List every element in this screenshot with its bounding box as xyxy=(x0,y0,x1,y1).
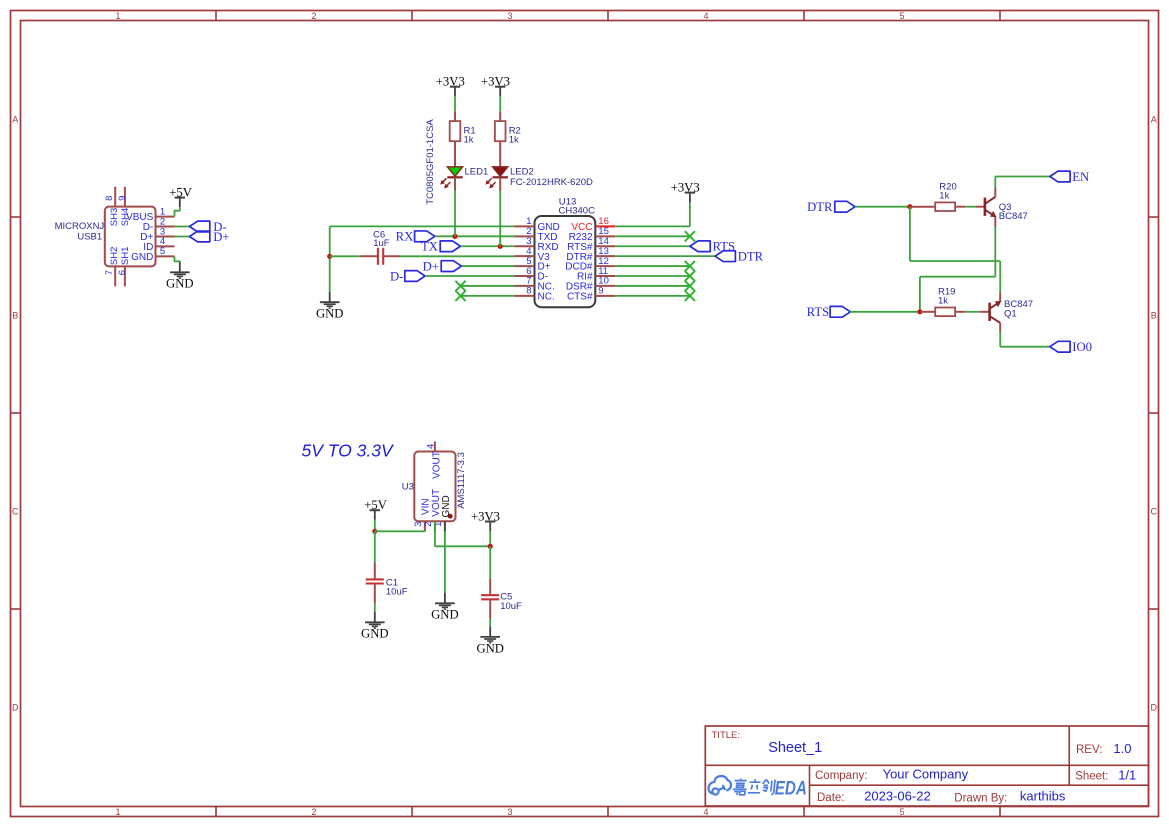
R19 value labels xyxy=(938,287,955,307)
resistor R2 xyxy=(495,111,506,167)
svg-text:9: 9 xyxy=(598,286,603,297)
power +3V3 (above R1) xyxy=(436,75,465,97)
net flag DTR (right of U13) xyxy=(715,250,764,264)
wire C5 to ground xyxy=(489,619,491,627)
svg-text:GND: GND xyxy=(166,277,194,291)
regulator U3 AMS1117-3.3 body xyxy=(414,442,455,532)
svg-text:1k: 1k xyxy=(938,295,948,306)
svg-text:EDA: EDA xyxy=(775,777,807,799)
IC U13 CH340C body xyxy=(515,216,616,307)
ground (left of U13) xyxy=(316,292,344,321)
net flag D- (USB) xyxy=(190,220,227,234)
net flag D+ (U13) xyxy=(423,259,462,273)
wire LED2 to RXD junction xyxy=(499,191,501,246)
capacitor C1 xyxy=(366,562,384,603)
svg-text:9: 9 xyxy=(117,196,128,201)
svg-text:GND: GND xyxy=(431,608,459,622)
C5 value labels xyxy=(500,592,522,612)
Q3 labels xyxy=(999,202,1028,222)
usb connector USB1 (MICROXNJ) xyxy=(105,187,175,287)
wire pin8 NC with no-connect X xyxy=(455,291,514,301)
C1 value labels xyxy=(386,578,408,598)
net flag D- (U13) xyxy=(390,269,425,283)
svg-text:MICROXNJ: MICROXNJ xyxy=(55,221,105,232)
net flag DTR (left input) xyxy=(807,200,855,214)
svg-text:D: D xyxy=(12,702,19,712)
wire +5V down to junction xyxy=(374,519,376,531)
svg-text:3: 3 xyxy=(507,11,512,21)
svg-text:Date:: Date: xyxy=(817,792,845,804)
USB1 pin numbers xyxy=(104,196,165,276)
svg-text:GND: GND xyxy=(361,627,389,641)
wire DTR junction down to Q1 emitter xyxy=(910,207,1000,261)
power +5V (USB) xyxy=(169,185,192,207)
power +3V3 (regulator output) xyxy=(471,509,500,531)
svg-text:DTR: DTR xyxy=(738,250,764,264)
svg-text:SH2: SH2 xyxy=(109,247,120,265)
svg-text:U3: U3 xyxy=(402,481,414,492)
wire C1 to ground xyxy=(374,604,376,612)
svg-text:1k: 1k xyxy=(939,190,949,201)
wire V3 pin4 to C6 xyxy=(330,255,515,257)
net flag EN xyxy=(1050,170,1089,184)
svg-text:A: A xyxy=(12,114,18,124)
svg-text:5: 5 xyxy=(160,246,165,257)
power +3V3 (above R2) xyxy=(481,75,510,97)
svg-text:Your Company: Your Company xyxy=(883,767,969,782)
svg-text:5V TO 3.3V: 5V TO 3.3V xyxy=(302,441,395,461)
LED1 part number (vertical) xyxy=(425,119,436,205)
wire R20 to Q3 base xyxy=(965,206,975,208)
svg-text:DTR: DTR xyxy=(807,200,833,214)
svg-text:2: 2 xyxy=(311,11,316,21)
U3 part number AMS1117-3.3 (vertical) xyxy=(456,452,467,509)
svg-text:5: 5 xyxy=(899,807,904,817)
net flag TX xyxy=(421,240,461,254)
wire junction down to C5 xyxy=(489,546,491,578)
wire LED1 to TXD junction xyxy=(454,191,456,236)
LED2 labels xyxy=(510,167,593,188)
wire D- to pin6 xyxy=(425,275,514,277)
svg-text:IO0: IO0 xyxy=(1072,340,1092,354)
wire DSR# pin10 with no-connect X xyxy=(615,281,695,291)
junction +3V3 node xyxy=(488,544,493,549)
resistor R20 xyxy=(911,202,966,211)
svg-text:karthibs: karthibs xyxy=(1020,789,1066,804)
U13 reference labels U13 / CH340C xyxy=(559,197,596,217)
R2 value labels xyxy=(509,126,521,146)
svg-text:D+: D+ xyxy=(213,230,229,244)
ground (USB) xyxy=(166,262,194,291)
wire R232 pin15 with no-connect X xyxy=(615,231,695,241)
LED LED1 (green) xyxy=(441,167,463,191)
wire Q1 emitter up to DTR line xyxy=(999,261,1001,292)
svg-text:2: 2 xyxy=(311,807,316,817)
USB1 pin names xyxy=(109,208,154,265)
power +3V3 (VCC) xyxy=(671,180,700,202)
C6 value labels xyxy=(373,229,390,249)
junction LED1/TXD xyxy=(452,234,457,239)
junction RTS node xyxy=(917,309,922,314)
svg-text:GND: GND xyxy=(476,642,504,656)
svg-text:RTS: RTS xyxy=(807,305,830,319)
svg-text:Sheet_1: Sheet_1 xyxy=(768,740,822,756)
Q1 labels xyxy=(1004,299,1033,319)
svg-text:VOUT: VOUT xyxy=(432,451,443,479)
junction +5V node xyxy=(372,529,377,534)
svg-text:D: D xyxy=(1151,702,1158,712)
wire pin7 NC with no-connect X xyxy=(455,281,514,291)
svg-text:4: 4 xyxy=(426,444,437,449)
wire RI# pin11 with no-connect X xyxy=(615,271,695,281)
svg-text:2023-06-22: 2023-06-22 xyxy=(864,789,931,804)
svg-text:EN: EN xyxy=(1072,170,1089,184)
ground (U3 pin1) xyxy=(431,593,459,622)
svg-text:10uF: 10uF xyxy=(500,601,522,612)
svg-text:4: 4 xyxy=(703,807,708,817)
svg-text:8: 8 xyxy=(104,196,115,201)
svg-text:GND: GND xyxy=(316,306,344,320)
R20 value labels xyxy=(939,182,956,202)
resistor R1 xyxy=(450,111,461,167)
junction on GND/V3 crossing xyxy=(327,254,332,259)
svg-text:USB1: USB1 xyxy=(77,232,102,243)
wire DTR to junction xyxy=(855,206,910,208)
wire Q1 collector to IO0 xyxy=(1000,332,1050,347)
wire junction to VIN pin3 xyxy=(375,530,425,532)
svg-text:8: 8 xyxy=(526,286,531,297)
wire +3V3 to R2 xyxy=(499,96,501,111)
svg-text:SH1: SH1 xyxy=(120,247,131,265)
wire RTS# pin14 to RTS flag xyxy=(615,245,690,247)
wire pin3 to D+ flag xyxy=(175,236,190,238)
wire GND pin1 down to ground xyxy=(444,531,446,593)
ground (C5) xyxy=(476,627,504,656)
junction DTR node xyxy=(907,204,912,209)
wire RX to TXD pin2 xyxy=(435,235,515,237)
U3 reference label xyxy=(402,481,414,492)
ground (C1) xyxy=(361,612,389,641)
wire +3V3 to R1 xyxy=(454,96,456,111)
U3 pin names (rotated) xyxy=(421,451,452,517)
LED1 label xyxy=(465,167,489,178)
svg-text:B: B xyxy=(1151,310,1157,320)
USB1 reference designator labels xyxy=(55,221,105,243)
svg-text:NC.: NC. xyxy=(538,291,555,302)
svg-text:SH3: SH3 xyxy=(109,208,120,226)
svg-text:7: 7 xyxy=(104,270,115,275)
svg-text:AMS1117-3.3: AMS1117-3.3 xyxy=(456,452,467,509)
svg-text:3: 3 xyxy=(507,807,512,817)
wire junction down to C1 xyxy=(374,531,376,562)
svg-text:1: 1 xyxy=(115,807,120,817)
wire VCC pin16 to +3V3 xyxy=(615,202,690,227)
junction LED2/RXD xyxy=(498,244,503,249)
wire RTS to junction xyxy=(850,311,920,313)
svg-text:C: C xyxy=(1151,506,1158,516)
svg-text:1uF: 1uF xyxy=(373,238,390,249)
svg-text:D-: D- xyxy=(390,269,403,283)
svg-text:GND: GND xyxy=(131,252,153,263)
power +5V (regulator input) xyxy=(364,498,387,520)
svg-text:1/1: 1/1 xyxy=(1118,768,1136,783)
svg-text:RX: RX xyxy=(396,230,414,244)
net flag RTS (right of U13) xyxy=(690,240,735,254)
wire VOUT pin2 to +3V3 junction xyxy=(435,522,490,547)
svg-text:TITLE:: TITLE: xyxy=(712,730,741,741)
wire DTR# pin13 to DTR flag xyxy=(615,255,715,257)
wire pin5 to ground xyxy=(175,256,180,262)
svg-text:TC0805GF01-1CSA: TC0805GF01-1CSA xyxy=(425,119,436,205)
svg-text:1k: 1k xyxy=(509,135,519,146)
svg-text:B: B xyxy=(12,310,18,320)
svg-text:GND: GND xyxy=(441,495,452,517)
wire Q3 collector to EN xyxy=(995,177,1050,188)
U13 pin numbers xyxy=(526,216,609,296)
wire D+ to pin5 xyxy=(462,265,515,267)
svg-text:REV:: REV: xyxy=(1076,744,1102,756)
svg-text:FC-2012HRK-620D: FC-2012HRK-620D xyxy=(510,177,593,188)
net flag D+ (USB) xyxy=(190,230,230,244)
svg-text:BC847: BC847 xyxy=(999,211,1028,222)
svg-text:Sheet:: Sheet: xyxy=(1075,771,1108,783)
svg-text:TX: TX xyxy=(421,240,438,254)
svg-text:A: A xyxy=(1151,114,1157,124)
svg-text:1.0: 1.0 xyxy=(1113,741,1131,756)
svg-text:CH340C: CH340C xyxy=(559,206,596,217)
net flag RX xyxy=(396,230,435,244)
svg-text:1k: 1k xyxy=(464,135,474,146)
capacitor C6 xyxy=(360,248,400,265)
resistor R19 xyxy=(921,308,966,317)
svg-text:5: 5 xyxy=(899,11,904,21)
U13 pin names xyxy=(538,222,593,302)
wire U13 pin1 GND net (horizontal + vertical) xyxy=(330,226,515,292)
svg-text:Company:: Company: xyxy=(815,770,867,782)
capacitor C5 xyxy=(481,578,499,618)
svg-text:Drawn By:: Drawn By: xyxy=(954,792,1007,804)
svg-text:D+: D+ xyxy=(423,259,439,273)
wire pin2 to D- flag xyxy=(175,226,190,228)
note text 5V TO 3.3V xyxy=(302,441,395,461)
wire CTS# pin9 with no-connect X xyxy=(615,291,695,301)
LED LED2 (red) xyxy=(486,167,508,191)
transistor Q1 BC847 (NPN) xyxy=(980,292,1001,331)
svg-text:4: 4 xyxy=(703,11,708,21)
svg-text:C: C xyxy=(12,506,19,516)
wire R19 to Q1 base xyxy=(965,311,980,313)
wire Q3 emitter to RTS junction xyxy=(920,227,995,312)
svg-text:1: 1 xyxy=(115,11,120,21)
svg-text:Q1: Q1 xyxy=(1004,309,1017,320)
R1 value labels xyxy=(464,126,476,146)
wire +3V3 down to junction xyxy=(489,531,491,547)
net flag RTS (left input) xyxy=(807,305,851,319)
transistor Q3 BC847 (NPN) xyxy=(975,188,996,227)
wire DCD# pin12 with no-connect X xyxy=(615,261,695,271)
net flag IO0 xyxy=(1050,340,1092,354)
svg-text:LED1: LED1 xyxy=(465,167,489,178)
U3 pin numbers xyxy=(413,444,444,527)
wire TX to RXD pin3 xyxy=(461,245,515,247)
svg-text:6: 6 xyxy=(117,270,128,275)
wire VBUS pin1 to +5V xyxy=(175,207,180,216)
svg-text:CTS#: CTS# xyxy=(567,291,593,302)
svg-text:10uF: 10uF xyxy=(386,587,408,598)
